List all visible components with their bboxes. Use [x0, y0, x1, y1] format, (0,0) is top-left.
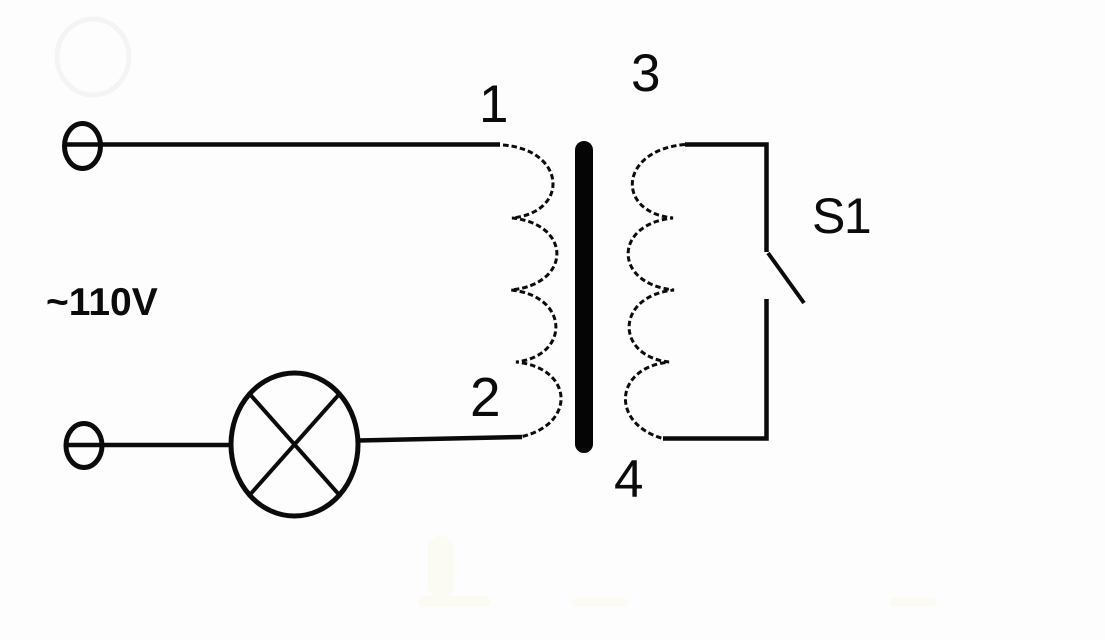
- transformer core: [575, 150, 593, 444]
- svg-text:4: 4: [614, 450, 643, 509]
- lamp cross stroke 2: [250, 394, 340, 495]
- svg-text:2: 2: [470, 366, 501, 428]
- terminal bottom-left: [66, 424, 102, 468]
- svg-text:3: 3: [631, 44, 660, 103]
- wire: secondary top (pin 3) to switch: [685, 145, 767, 253]
- transformer secondary winding (pins 3-4): [625, 145, 685, 439]
- svg-text:1: 1: [479, 75, 508, 134]
- transformer primary winding (pins 1-2): [503, 145, 561, 437]
- wire: switch lower contact to secondary bottom (pin 4): [663, 299, 767, 439]
- switch S1 open blade: [768, 253, 804, 303]
- wire: top terminal to transformer pin 1: [64, 142, 500, 147]
- svg-text:~110V: ~110V: [46, 281, 158, 324]
- faint erased ghost smudge top-left: [57, 19, 129, 95]
- wire: bottom terminal to lamp: [66, 443, 232, 448]
- terminal top-left: [65, 124, 101, 169]
- lamp cross stroke 1: [250, 394, 340, 495]
- wire: lamp to transformer pin 2: [358, 437, 522, 441]
- lamp HL1 (circle with X): [231, 373, 358, 516]
- faint scan artifacts bottom: [418, 536, 936, 607]
- svg-text:S1: S1: [812, 188, 870, 244]
